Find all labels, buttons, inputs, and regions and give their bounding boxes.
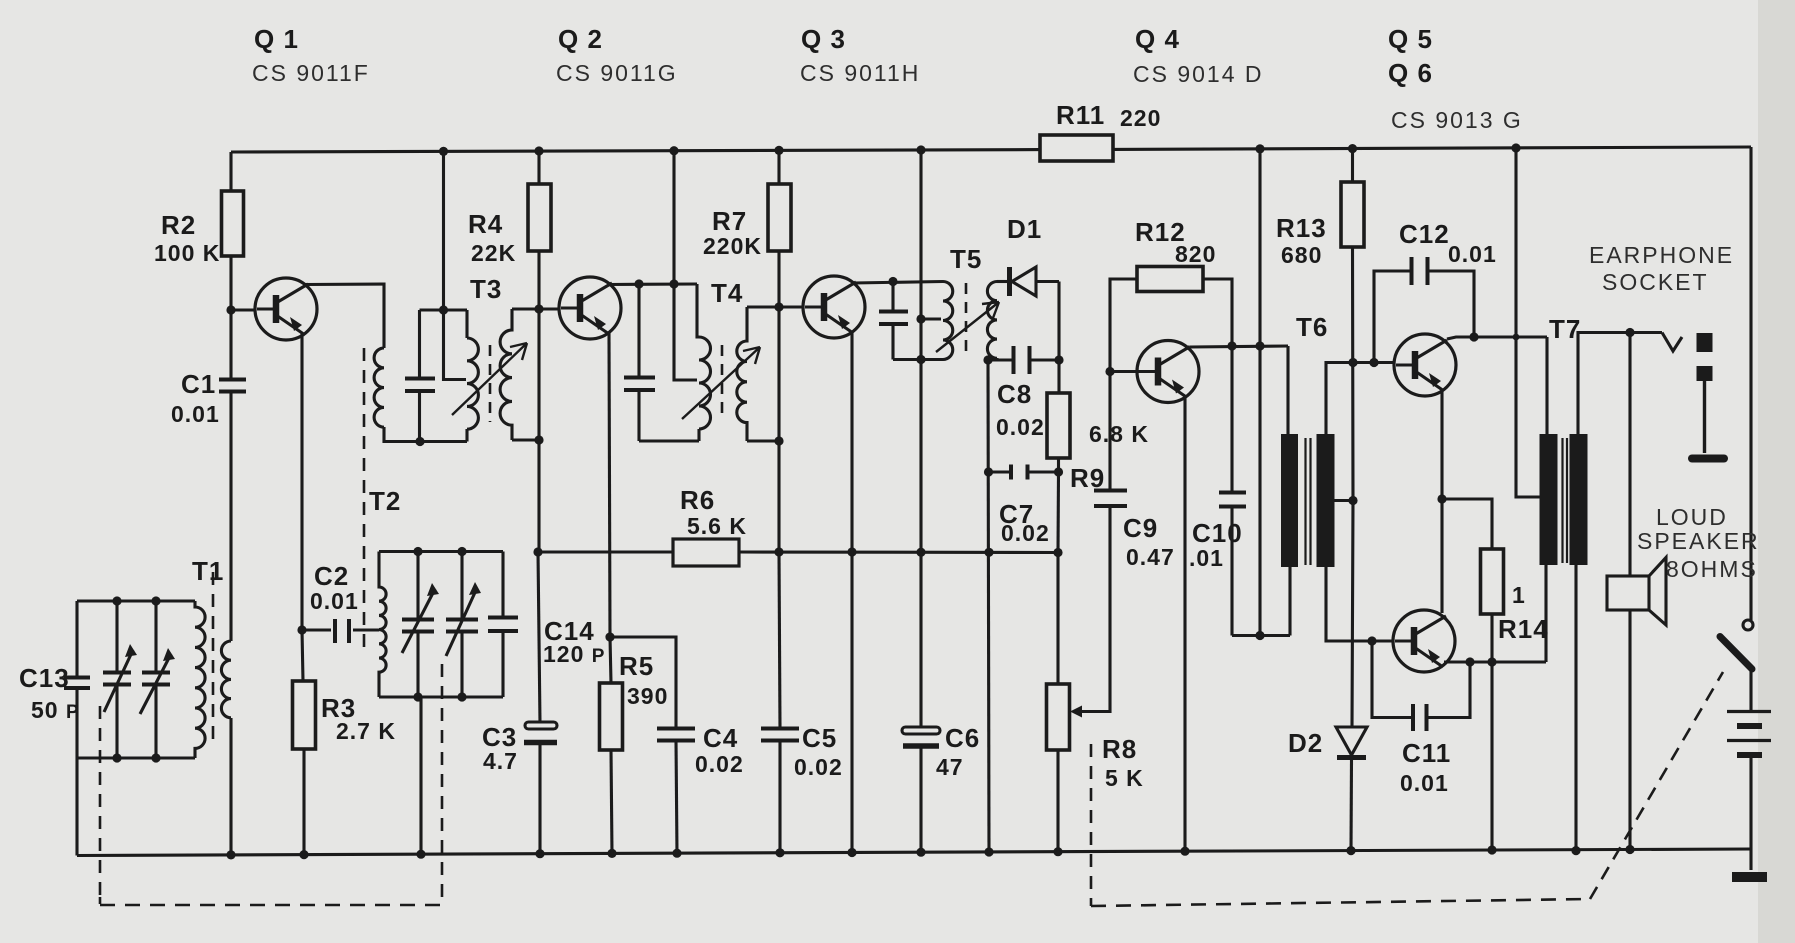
SECTION:MID: [538, 333, 1058, 854]
node AGC at C14 branch: [533, 547, 542, 556]
wire T3 tank top link: [420, 308, 468, 311]
svg-text:6.8 K: 6.8 K: [1089, 421, 1149, 447]
svg-text:R13: R13: [1276, 213, 1327, 243]
transformer T5 primary winding: [943, 282, 953, 360]
wire rail to R4: [537, 151, 540, 184]
variable capacitor oscillator gang A: [402, 552, 435, 698]
capacitor C1: [219, 380, 246, 392]
node ground rail at T1 secondary: [226, 850, 235, 859]
transformer T1 core dashed: [212, 572, 215, 747]
svg-text:C1: C1: [181, 369, 216, 399]
transistor Q4: [1137, 341, 1199, 403]
transformer T4 primary winding: [699, 337, 711, 429]
node ground rail at Q4 emitter: [1180, 847, 1189, 856]
wire T5 secondary bottom link: [987, 358, 1013, 360]
node Q5 base R13: [1348, 358, 1357, 367]
wire T6 primary bottom stem: [1288, 567, 1291, 636]
transformer T3 core dashed: [489, 345, 492, 422]
svg-text:0.02: 0.02: [695, 751, 744, 777]
node ground rail at T2 tank: [416, 850, 425, 859]
wire R7 bottom through Q3 base node to AGC: [777, 251, 780, 552]
node T3 secondary bottom: [534, 435, 543, 444]
node Q6 base C11: [1367, 636, 1376, 645]
svg-text:390: 390: [627, 683, 668, 709]
wire T4 secondary bottom link: [747, 439, 779, 442]
node T5 tank bottom: [916, 355, 925, 364]
svg-text:CS 9011G: CS 9011G: [556, 60, 678, 86]
wire T5 secondary top to D1: [997, 280, 1009, 283]
svg-text:5.6 K: 5.6 K: [687, 513, 747, 539]
transformer T4 secondary winding: [737, 307, 747, 441]
transistor Q6: [1393, 610, 1455, 672]
svg-text:R9: R9: [1070, 463, 1105, 493]
svg-text:C10: C10: [1192, 518, 1243, 548]
transformer T5 secondary winding: [987, 282, 997, 359]
wire rail to R7: [777, 150, 780, 184]
node Q5 emitter R14 junction: [1437, 494, 1446, 503]
wire R13 bottom through Q5 base node to D2: [1352, 247, 1353, 727]
svg-text:4.7: 4.7: [483, 748, 518, 774]
node T4 feed junction: [669, 279, 678, 288]
node C7 right: [1054, 467, 1063, 476]
transformer T7 secondary bar: [1570, 434, 1588, 565]
SECTION:T3: [420, 151, 468, 441]
antenna tank bottom wire: [77, 756, 195, 759]
node ground rail at R8: [1053, 847, 1062, 856]
node tank bottom A: [112, 753, 121, 762]
svg-text:T3: T3: [470, 274, 502, 304]
capacitor C9: [1094, 372, 1127, 507]
switch blade: [1720, 637, 1752, 670]
wire R9 bottom to C7 node: [1057, 458, 1060, 472]
transformer T7 primary bar: [1540, 434, 1558, 565]
wire T4 secondary top to Q3 base: [747, 305, 803, 308]
wire C8 node to R9: [1057, 360, 1060, 393]
resistor R4: [528, 184, 551, 251]
svg-text:R4: R4: [468, 209, 503, 239]
wire Q1 collector to T2 primary corner: [305, 284, 384, 348]
wire AGC line left of R6: [538, 550, 673, 553]
svg-text:R14: R14: [1498, 614, 1549, 644]
wire T5 tap stub: [921, 317, 941, 320]
svg-text:0.02: 0.02: [794, 754, 843, 780]
wire tank bottom to ground rail left end: [75, 758, 78, 856]
wire top supply rail right segment: [1113, 147, 1751, 149]
svg-text:C2: C2: [314, 561, 349, 591]
wire T7 primary bottom to Q6 emitter line: [1544, 565, 1547, 662]
wire Q2 collector line: [609, 282, 697, 286]
svg-text:C11: C11: [1402, 738, 1451, 768]
potentiometer R8: [1047, 684, 1070, 750]
diode D2: [1336, 727, 1367, 850]
node top rail at R4: [534, 146, 543, 155]
wire T5 tank bottom link: [893, 358, 943, 361]
earphone plug ring: [1697, 366, 1713, 381]
svg-text:47: 47: [936, 754, 964, 780]
node collector at T6 supply cross: [1255, 341, 1264, 350]
earphone plug tip: [1697, 333, 1713, 352]
svg-text:R6: R6: [680, 485, 715, 515]
wire T2 tank top rail: [379, 550, 503, 553]
wire rail to T3 tap feed: [444, 151, 467, 379]
svg-text:SOCKET: SOCKET: [1602, 269, 1709, 295]
svg-text:D1: D1: [1007, 214, 1042, 244]
wire R5 node to R5: [610, 637, 611, 683]
wire Q3 collector line: [853, 282, 943, 284]
dashed volume control link vertical: [1090, 744, 1093, 906]
capacitor C2: [302, 619, 379, 643]
svg-text:Q 3: Q 3: [801, 24, 846, 54]
svg-text:T2: T2: [369, 486, 401, 516]
node collector R12 C10 junction: [1227, 341, 1236, 350]
wire T3 secondary top to Q2 base: [512, 307, 558, 310]
node ground rail at R3: [299, 850, 308, 859]
wire R8 bottom to ground rail: [1056, 750, 1059, 852]
node Q2 base: [534, 304, 543, 313]
svg-text:220: 220: [1120, 105, 1161, 131]
SECTION:T5: [853, 150, 943, 552]
node AGC right end at R8: [1053, 548, 1062, 557]
resistor R11: [1040, 135, 1113, 161]
node T3 tank bottom junction: [415, 437, 424, 446]
transformer T2 oscillator winding: [379, 552, 386, 698]
wire T6 primary bottom link: [1232, 634, 1290, 637]
dashed volume control link diagonal to switch: [1590, 672, 1723, 899]
wire rail to T4 tap feed: [674, 151, 697, 380]
ground bar below battery: [1732, 872, 1767, 882]
node Q5 base C12: [1369, 358, 1378, 367]
wire Q1 emitter down: [300, 333, 303, 630]
wire AGC node to C3: [538, 552, 540, 723]
capacitor T5 tuning: [879, 312, 908, 325]
svg-text:T7: T7: [1549, 314, 1581, 344]
node top rail at T3 feed: [439, 147, 448, 156]
wire D1 cathode down to C8 node: [1057, 282, 1060, 361]
wire T2 primary bottom to T3 tank bottom: [384, 427, 467, 442]
node T6 primary bottom supply: [1255, 631, 1264, 640]
wire T1 secondary bottom to ground rail: [229, 718, 232, 855]
capacitor C8: [1014, 346, 1060, 374]
svg-text:T1: T1: [192, 556, 224, 586]
wire R5 bottom to ground rail: [611, 750, 612, 854]
switch contact circle: [1743, 620, 1753, 630]
transistor Q2: [559, 277, 621, 339]
transformer T1 primary winding: [195, 601, 205, 758]
svg-text:CS 9011H: CS 9011H: [800, 60, 920, 86]
node AGC at C6 branch: [916, 548, 925, 557]
resistor R9: [1047, 393, 1070, 458]
resistor R12: [1110, 267, 1232, 372]
wire T3 primary bottom corner: [465, 429, 468, 442]
wire Q5 collector line to T7: [1447, 337, 1547, 339]
dashed gang coupling left vertical: [99, 706, 102, 904]
variable capacitor oscillator gang B: [446, 552, 478, 698]
capacitor C11: [1372, 641, 1470, 731]
node top rail at R7: [774, 146, 783, 155]
svg-text:0.02: 0.02: [1001, 520, 1050, 546]
svg-text:R11: R11: [1056, 100, 1105, 130]
dashed gang coupling bottom horizontal: [100, 904, 442, 907]
svg-text:8OHMS: 8OHMS: [1666, 556, 1758, 582]
node top rail at T5 feed: [916, 145, 925, 154]
wire loudspeaker line: [1628, 333, 1631, 850]
wire T2 tank to ground rail: [419, 697, 422, 855]
earphone socket contact: [1662, 333, 1682, 352]
wire T4 primary bottom corner: [697, 429, 700, 441]
SECTION:LEFT: [231, 152, 467, 855]
transformer T1 secondary winding: [221, 641, 231, 718]
node ground rail at Q6 emitter: [1487, 845, 1496, 854]
wire Q5 collector corner to T7 primary top: [1545, 337, 1548, 436]
transformer T6 primary bar: [1281, 434, 1298, 567]
trimmer arrow T5: [936, 302, 999, 352]
wire rail to R13: [1351, 149, 1354, 182]
node Q3 base: [774, 302, 783, 311]
node top rail at T6 feed: [1255, 144, 1264, 153]
transistor Q5: [1394, 334, 1456, 396]
wire battery to ground rail: [1749, 757, 1752, 870]
svg-text:T6: T6: [1296, 312, 1328, 342]
wire T3 secondary bottom link: [512, 438, 539, 441]
node Q1 base: [226, 305, 235, 314]
node T7 secondary bottom ground: [1571, 846, 1580, 855]
earphone plug stem: [1703, 381, 1706, 453]
node T5 cap stem: [888, 277, 897, 286]
node C2 tap on Q1 emitter: [297, 625, 306, 634]
svg-text:T5: T5: [950, 244, 982, 274]
node T4 cap stem: [634, 279, 643, 288]
transformer T2 core dashed: [363, 348, 366, 655]
loudspeaker: [1607, 558, 1666, 626]
node R5 top junction: [605, 632, 614, 641]
svg-text:Q 2: Q 2: [558, 24, 603, 54]
node ground rail at C4: [672, 849, 681, 858]
wire C4 to ground rail: [676, 741, 677, 854]
node T2 tank top B: [457, 547, 466, 556]
wire rail to T7 primary centre tap: [1516, 148, 1540, 497]
node T4 secondary bottom: [774, 436, 783, 445]
node ground rail at C3: [535, 849, 544, 858]
svg-text:R5: R5: [619, 651, 654, 681]
svg-text:0.01: 0.01: [171, 401, 220, 427]
node top rail at R13: [1348, 144, 1357, 153]
diode D1: [1010, 267, 1060, 296]
wire Q3 emitter down to ground: [850, 332, 853, 853]
wiper arrow R8 from C9: [1080, 508, 1110, 712]
node AGC at R7 branch: [774, 547, 783, 556]
svg-text:0.01: 0.01: [310, 588, 359, 614]
capacitor C7: [989, 465, 1059, 480]
wire T6 secondary top to Q5 base: [1326, 363, 1394, 437]
wire Q4 emitter to ground: [1183, 397, 1186, 851]
svg-text:C9: C9: [1123, 513, 1158, 543]
node ground rail at loudspeaker: [1625, 845, 1634, 854]
svg-text:Q 5: Q 5: [1388, 24, 1433, 54]
node T2 tank top A: [413, 547, 422, 556]
svg-text:SPEAKER: SPEAKER: [1637, 528, 1760, 554]
node T3 feed junction: [439, 305, 448, 314]
wire T5 tuning cap stem bottom: [891, 325, 894, 360]
variable capacitor gang section B: [140, 601, 171, 758]
transformer T3 primary winding: [467, 338, 478, 429]
svg-text:Q 6: Q 6: [1388, 58, 1433, 88]
svg-text:T4: T4: [711, 278, 743, 308]
transformer T7 core lines: [1563, 438, 1568, 563]
svg-text:0.47: 0.47: [1126, 544, 1175, 570]
wire R14 top arm: [1442, 499, 1492, 549]
wire C3t cap stem bottom: [418, 391, 421, 442]
capacitor C13: [64, 601, 90, 758]
transformer T6 secondary bar: [1317, 434, 1335, 567]
node ground rail at detector return: [984, 847, 993, 856]
node ground rail at C5: [775, 848, 784, 857]
node T2 tank bottom B: [457, 692, 466, 701]
node tank top B: [151, 596, 160, 605]
node C8 right: [1054, 355, 1063, 364]
svg-text:C5: C5: [802, 723, 837, 753]
node ground rail at C6: [916, 848, 925, 857]
capacitor C12: [1374, 257, 1474, 363]
node loudspeaker branch: [1625, 328, 1634, 337]
svg-text:0.02: 0.02: [996, 414, 1045, 440]
resistor R14: [1481, 549, 1504, 614]
wire Q2 emitter down to R5 node: [609, 333, 610, 637]
node Q6 emitter C11: [1465, 657, 1474, 666]
svg-text:EARPHONE: EARPHONE: [1589, 242, 1734, 268]
svg-text:Q 4: Q 4: [1135, 24, 1180, 54]
node T2 tank bottom A: [413, 692, 422, 701]
node Q5 collector C12: [1469, 332, 1478, 341]
wire R14 bottom to emitter line: [1490, 614, 1493, 662]
transformer T4 core dashed: [721, 345, 724, 418]
svg-text:LOUD: LOUD: [1656, 504, 1728, 530]
wire T6 secondary bottom to Q6 base: [1326, 567, 1394, 641]
wire Q6 emitter to ground: [1490, 662, 1493, 850]
resistor R5: [600, 683, 623, 750]
wire AGC line right of R6: [739, 550, 1058, 554]
resistor R3: [293, 681, 316, 749]
node AGC at detector return: [984, 548, 993, 557]
wire R2 bottom to base node: [229, 256, 232, 310]
wire rail corner to R2 top: [229, 152, 232, 191]
node Q5 collector T7 supply cross: [1513, 334, 1520, 341]
node T5 tap: [916, 314, 925, 323]
capacitor C3 electrolytic: [524, 722, 557, 743]
wire Q5 emitter to Q6 collector: [1440, 391, 1443, 613]
wire Q6 emitter line: [1444, 660, 1546, 663]
wire AGC end to R8: [1056, 553, 1059, 685]
resistor R7: [768, 184, 791, 251]
svg-text:100 K: 100 K: [154, 240, 220, 266]
svg-text:1: 1: [1512, 582, 1526, 608]
capacitor C5: [761, 552, 799, 853]
wire T7 secondary bottom to ground: [1574, 565, 1577, 852]
wire T6 secondary centre tap stub: [1334, 499, 1353, 502]
svg-text:0.01: 0.01: [1400, 770, 1449, 796]
svg-text:0.01: 0.01: [1448, 241, 1497, 267]
wire R3 bottom to ground rail: [302, 749, 305, 855]
node top rail at T4 feed: [669, 146, 678, 155]
earphone plug sleeve bar: [1692, 455, 1724, 463]
wire T5 tuning cap stem top: [891, 282, 894, 312]
wire T3 primary top corner: [465, 310, 468, 338]
battery cell plates: [1727, 712, 1771, 756]
transformer T3 secondary winding: [500, 309, 512, 440]
svg-text:CS 9014 D: CS 9014 D: [1133, 61, 1264, 87]
node Q4 base R12 C9 junction: [1105, 367, 1114, 376]
node AGC at Q3 emitter: [847, 547, 856, 556]
wire base node to C1 top: [229, 310, 232, 379]
wire C2 node to R3 top: [302, 630, 303, 681]
resistor R2: [222, 191, 244, 256]
capacitor C4: [657, 729, 695, 741]
node tank bottom B: [151, 753, 160, 762]
svg-text:.01: .01: [1189, 545, 1224, 571]
antenna tank top wire: [77, 599, 195, 602]
wire R5 node to C4: [610, 637, 676, 728]
node top rail at T7 tap feed: [1511, 143, 1520, 152]
wire C7 node to AGC end: [1056, 472, 1060, 553]
wire Q4 collector line: [1190, 346, 1288, 347]
resistor R6: [673, 539, 739, 566]
svg-text:R7: R7: [712, 206, 747, 236]
variable capacitor gang section A: [103, 601, 133, 758]
svg-text:C13: C13: [19, 663, 70, 693]
trimmer arrow T3: [452, 343, 527, 415]
transformer T6 core lines: [1306, 438, 1311, 565]
wire T4 tuning cap stem top: [637, 284, 640, 377]
wire rail to T5 tap: [919, 150, 922, 552]
wire right battery rail lower: [1749, 669, 1752, 711]
svg-text:220K: 220K: [703, 233, 762, 259]
wire bottom ground rail: [77, 849, 1751, 856]
svg-text:R2: R2: [161, 210, 196, 240]
svg-text:680: 680: [1281, 242, 1322, 268]
wire C3 to ground rail: [538, 745, 541, 854]
wire T4 primary top corner: [697, 284, 699, 337]
SECTION:RAILS: [77, 147, 1751, 870]
dashed volume control link horizontal: [1091, 899, 1590, 906]
svg-text:22K: 22K: [471, 240, 516, 266]
capacitor C14 padder: [488, 552, 518, 698]
svg-text:2.7 K: 2.7 K: [336, 718, 396, 744]
transformer T2 primary winding: [374, 348, 384, 427]
node C7 left: [984, 467, 993, 476]
wire R4 bottom through base node to AGC line: [537, 251, 540, 552]
wire base node to Q1 base: [231, 308, 256, 311]
transistor Q3: [803, 276, 865, 338]
SECTION:T4: [609, 151, 699, 441]
svg-text:Q 1: Q 1: [254, 24, 299, 54]
svg-text:5 K: 5 K: [1105, 765, 1144, 791]
wire T7 secondary top to earphone socket: [1578, 333, 1662, 437]
svg-text:CS 9013 G: CS 9013 G: [1391, 107, 1523, 133]
transistor Q1: [255, 278, 317, 340]
svg-text:D2: D2: [1288, 728, 1323, 758]
svg-text:C12: C12: [1399, 219, 1450, 249]
wire top supply rail left segment: [231, 150, 1040, 152]
wire detector return down: [988, 360, 989, 853]
svg-text:820: 820: [1175, 241, 1216, 267]
wire T2 tank bottom rail: [379, 695, 503, 698]
wire C3t cap stem top: [418, 310, 421, 378]
node tank top A: [112, 596, 121, 605]
svg-text:CS 9011F: CS 9011F: [252, 60, 370, 86]
node ground rail at R5: [607, 849, 616, 858]
svg-text:R8: R8: [1102, 734, 1137, 764]
node C8 left: [983, 355, 992, 364]
capacitor C6 electrolytic: [902, 552, 940, 853]
